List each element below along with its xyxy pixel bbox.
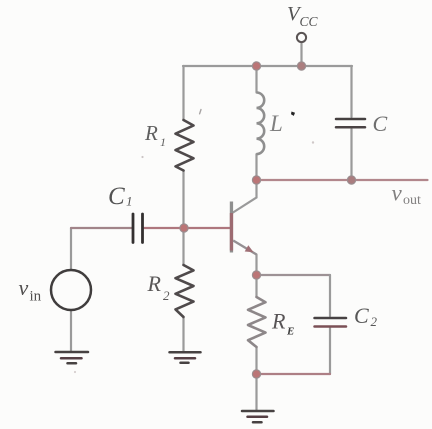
svg-text:v: v — [392, 181, 403, 206]
svg-text:1: 1 — [126, 194, 133, 209]
svg-text:in: in — [30, 289, 42, 305]
svg-text:E: E — [286, 326, 294, 338]
svg-text:R: R — [147, 271, 162, 296]
svg-text:R: R — [144, 121, 158, 145]
svg-text:L: L — [269, 111, 283, 136]
svg-text:C: C — [354, 303, 369, 328]
svg-text:1: 1 — [160, 135, 166, 149]
svg-text:CC: CC — [300, 14, 319, 29]
svg-text:v: v — [19, 275, 29, 300]
svg-text:R: R — [271, 309, 286, 334]
svg-text:C: C — [108, 183, 125, 210]
svg-text:C: C — [373, 111, 388, 136]
svg-text:out: out — [403, 193, 421, 208]
svg-text:2: 2 — [371, 314, 378, 329]
svg-text:2: 2 — [163, 288, 170, 303]
